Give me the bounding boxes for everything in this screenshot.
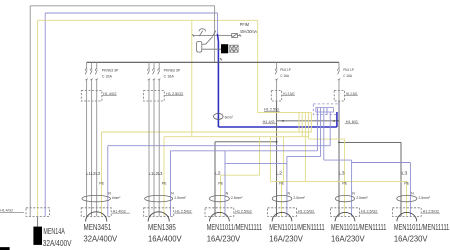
wire X1 stub to plug: [37, 216, 39, 227]
RCD trip coil diagonal: [232, 34, 238, 38]
underline Q3 cable label: [282, 95, 295, 97]
wire PE drop b: [301, 113, 303, 137]
wire PE drop socket X6: [406, 181, 408, 216]
wire N drop socket X2: [107, 146, 109, 217]
cable box Q3 dashed: [271, 91, 281, 102]
RCD test wire b: [202, 48, 222, 50]
svg-text:PFIM: PFIM: [240, 22, 249, 27]
socket X4 MEN11011: [268, 171, 325, 244]
svg-text:C 32A: C 32A: [102, 73, 112, 78]
svg-text:2.5mm²: 2.5mm²: [174, 195, 186, 200]
svg-text:L3: L3: [339, 171, 346, 176]
svg-text:6mm²: 6mm²: [112, 195, 121, 200]
wire PE supply top horizontal: [38, 19, 258, 21]
svg-text:L1L2L3: L1L2L3: [86, 171, 100, 176]
svg-text:16A/230V: 16A/230V: [394, 235, 428, 244]
wire N supply left vertical: [44, 13, 46, 208]
socket X5 MEN11011: [331, 171, 387, 244]
wire N drop socket X5: [351, 160, 353, 216]
RCD winding divider: [233, 45, 235, 52]
wire Q2 out 2 in box: [153, 91, 155, 102]
RCD N switch blade: [217, 34, 218, 55]
wire N main riser to junction: [336, 112, 338, 127]
breaker Q2 pole 2: [153, 62, 156, 90]
svg-text:N: N: [411, 191, 414, 195]
breaker Q4 pole: [338, 62, 341, 90]
svg-text:32A/400V: 32A/400V: [43, 239, 72, 248]
svg-text:2.5mm²: 2.5mm²: [293, 195, 305, 200]
wire PE row X5 upper: [309, 138, 345, 140]
wire N into RCD: [217, 13, 219, 34]
junction L2 T: [276, 141, 278, 143]
wire N drop socket X6: [409, 163, 411, 217]
svg-text:MEN11011/MEN11111: MEN11011/MEN11111: [207, 223, 263, 232]
wire X2 L1 down: [86, 101, 88, 216]
annotation dot left: [282, 120, 284, 122]
svg-text:PKN63 3P: PKN63 3P: [102, 67, 119, 72]
svg-text:MEN3451: MEN3451: [84, 223, 112, 232]
svg-text:N: N: [352, 191, 355, 195]
annotation dot right: [333, 120, 335, 122]
underline Q2 cable label: [164, 95, 183, 97]
RCD U1 body line: [193, 34, 232, 36]
underline X1 cable label: [0, 211, 24, 213]
RCD contact blade 1: [199, 31, 203, 37]
wire N drop socket X2b: [170, 151, 172, 217]
RCD contact blade 2: [212, 31, 216, 37]
RCD winding X1b: [230, 45, 234, 52]
RCD left terminal tick: [192, 34, 194, 36]
wire X1 L in box: [29, 208, 31, 217]
svg-text:2.5mm²: 2.5mm²: [419, 195, 431, 200]
svg-text:H1 2.5/G: H1 2.5/G: [264, 108, 279, 112]
svg-text:H1 6/G: H1 6/G: [346, 120, 358, 124]
svg-text:H1 4/G2: H1 4/G2: [0, 208, 13, 212]
wire L2 feeder Q3 down to socket X4: [276, 101, 278, 216]
wire L3 drop socket X6: [400, 142, 402, 216]
svg-text:H1 2.5/G: H1 2.5/G: [283, 92, 295, 96]
RCD test wire a: [202, 43, 206, 45]
bus L main horizontal: [87, 61, 339, 63]
wire L2 drop socket X3: [214, 142, 216, 217]
svg-text:MEN11011/MEN11111: MEN11011/MEN11111: [394, 223, 450, 232]
svg-text:MEN1385: MEN1385: [148, 223, 176, 232]
svg-text:32A/400V: 32A/400V: [84, 235, 118, 244]
svg-text:16A/400V: 16A/400V: [148, 235, 182, 244]
svg-text:L3: L3: [401, 171, 408, 176]
svg-text:N: N: [108, 191, 111, 195]
svg-text:C 16A: C 16A: [164, 73, 174, 78]
svg-text:H1 2.5/G2: H1 2.5/G2: [298, 209, 314, 213]
wire N main vertical: [217, 55, 219, 127]
wire N daisy row X5-X6: [352, 162, 411, 164]
cable box Q2 dashed: [144, 91, 165, 102]
wire PE feeder drop left: [191, 20, 193, 136]
cable box Q1 dashed: [81, 91, 102, 102]
underline H1 2.5/G mid: [264, 111, 280, 113]
wire Q2 out 1 in box: [148, 91, 150, 102]
breaker Q1 pole 1: [85, 62, 88, 90]
socket X2b MEN1385: [144, 171, 193, 243]
wire X2b L1 down: [148, 101, 150, 216]
svg-text:PN1 1P: PN1 1P: [343, 67, 354, 72]
junction box drop 4 stub: [326, 108, 328, 115]
svg-text:MEN11011/MEN11111: MEN11011/MEN11111: [269, 223, 325, 232]
wire L supply left vertical: [29, 6, 31, 208]
svg-text:PE: PE: [218, 181, 223, 186]
wire PE row sockets X4-X6: [270, 180, 406, 182]
cable box Q4 dashed: [334, 91, 344, 102]
wire PE feeder X3: [259, 137, 261, 176]
svg-text:C 16A: C 16A: [343, 73, 352, 78]
wire X1 PE in box: [37, 208, 39, 217]
junction box drop 3: [323, 108, 325, 160]
socket X2 MEN3451: [81, 171, 130, 243]
RCD winding X2a: [234, 45, 238, 52]
wire PE drop socket X3: [220, 175, 222, 216]
wire PE drop c: [308, 113, 310, 140]
title block corner mark: [0, 247, 9, 250]
svg-text:2.5mm²: 2.5mm²: [231, 195, 243, 200]
wire N row socket X4: [287, 155, 321, 157]
svg-text:H1 2.5/G: H1 2.5/G: [346, 92, 358, 96]
wire N row socket X5: [324, 159, 352, 161]
junction box drop 2: [320, 108, 322, 156]
wire PE row 1 (X2 tap): [102, 131, 312, 133]
wire N row B (X2b + X3 tap): [171, 150, 318, 152]
wire PE feeder drop right: [257, 20, 259, 112]
wire PE drop socket X2: [101, 132, 103, 216]
svg-text:H1 2.5/G2: H1 2.5/G2: [175, 209, 191, 213]
wire Q4 out in box: [338, 91, 340, 102]
RCD trip coil box: [232, 34, 238, 38]
cable marker ellipse on N main: [214, 113, 224, 119]
annotation link line: [277, 120, 339, 122]
wire N daisy row X3-X4: [225, 163, 287, 165]
RCD winding box: [230, 45, 238, 52]
breaker Q1 pole 2: [90, 62, 93, 90]
wire L into RCD: [214, 6, 216, 35]
wire PE drop socket X5: [344, 139, 346, 216]
wire Q1 out 3 in box: [96, 91, 98, 102]
RCD CT core (black): [221, 45, 227, 53]
breaker Q3 pole: [275, 62, 278, 90]
RCD winding X1a: [230, 45, 234, 52]
wire PE drop socket X4: [281, 181, 283, 216]
svg-text:N: N: [288, 191, 291, 195]
socket X3 MEN11011: [205, 171, 262, 244]
svg-text:H1 4/G: H1 4/G: [263, 120, 275, 124]
wire PE feeder X5-X6: [304, 113, 306, 182]
junction box drop 5 / N row A feed: [329, 112, 331, 146]
svg-text:40A/30mA: 40A/30mA: [240, 29, 257, 34]
wire X2 L3 down: [96, 101, 98, 216]
wire PE row top: [258, 112, 312, 114]
wire X2b L2 down: [153, 101, 155, 216]
junction box dashed outline: [313, 104, 339, 115]
wire X2b L3 down: [158, 101, 160, 216]
RCD right stub: [237, 34, 240, 36]
breaker Q2 pole 1: [148, 62, 151, 90]
svg-text:MEN14A: MEN14A: [43, 227, 65, 236]
svg-text:N: N: [220, 58, 223, 62]
svg-text:H1 2.5/G2: H1 2.5/G2: [423, 209, 439, 213]
wire X2 L2 down: [91, 101, 93, 216]
junction L3 T: [338, 142, 340, 144]
svg-text:16A/230V: 16A/230V: [331, 235, 365, 244]
svg-text:PE: PE: [99, 181, 104, 186]
RCD winding X2b: [234, 45, 238, 52]
svg-text:L2: L2: [215, 171, 222, 176]
svg-text:PE: PE: [279, 181, 284, 186]
svg-text:H1 2.5/G2: H1 2.5/G2: [361, 209, 377, 213]
wire Q1 out 2 in box: [91, 91, 93, 102]
cable box X1 (MEN14A) dashed: [26, 208, 49, 217]
svg-text:C 16A: C 16A: [280, 73, 289, 78]
wire N drop socket X4: [286, 156, 288, 216]
wire N main horizontal: [218, 126, 337, 128]
wire Q3 out in box: [276, 91, 278, 102]
RCD linkage arc: [199, 29, 206, 32]
wire PE drop socket X2b: [163, 137, 165, 217]
wire N supply top horizontal: [45, 12, 217, 14]
plug X1 MEN14A (black): [34, 227, 42, 245]
wire PE drop d: [310, 113, 312, 132]
wire PE feeder X4: [269, 137, 271, 182]
RCD right terminal tick: [239, 34, 241, 36]
svg-text:N: N: [226, 191, 229, 195]
svg-text:6mm²: 6mm²: [225, 114, 234, 119]
svg-text:2.5mm²: 2.5mm²: [356, 195, 368, 200]
underline H1 4/G mid: [263, 123, 277, 125]
socket X6 MEN11011: [392, 171, 449, 244]
underline Q4 cable label: [345, 95, 358, 97]
wire PE row socket X3: [221, 174, 260, 176]
svg-text:16A/230V: 16A/230V: [207, 235, 241, 244]
wire L supply top horizontal: [30, 5, 214, 7]
wire L3 branch horizontal to socket X6: [339, 141, 401, 143]
junction box drop 1: [316, 108, 318, 151]
svg-text:L2: L2: [276, 171, 283, 176]
junction box solid body: [316, 108, 334, 112]
breaker Q2 pole 3: [158, 62, 161, 90]
breaker Q1 pole 3: [95, 62, 98, 90]
RCD test button: [197, 42, 202, 53]
svg-text:16A/230V: 16A/230V: [269, 235, 303, 244]
wire PE row 2 (X2b tap): [164, 136, 309, 138]
wire N drop socket X3: [224, 151, 226, 217]
svg-text:H1 2.5/G2: H1 2.5/G2: [235, 209, 251, 213]
wire Q2 out 3 in box: [158, 91, 160, 102]
wire PE drop a: [298, 113, 300, 132]
svg-text:PE: PE: [162, 181, 167, 186]
RCD test wire diagonal: [206, 37, 213, 45]
svg-text:PE: PE: [342, 181, 347, 186]
svg-text:PKN63 3P: PKN63 3P: [164, 67, 181, 72]
wire N row A (X2 tap): [108, 145, 330, 147]
wire L RCD output to bus: [214, 35, 216, 62]
wire PE feeder X4 b: [282, 137, 284, 182]
svg-text:MEN11011/MEN11111: MEN11011/MEN11111: [331, 223, 387, 232]
svg-text:H1 4/G2: H1 4/G2: [113, 209, 126, 213]
underline Q1 cable label: [102, 95, 117, 97]
wire PE supply left vertical: [37, 20, 39, 208]
svg-text:PN1 1P: PN1 1P: [280, 67, 291, 72]
svg-text:H1 4/G2: H1 4/G2: [103, 92, 116, 96]
wire X1 N in box: [44, 208, 46, 217]
wire L2 branch horizontal to socket X3: [215, 141, 277, 143]
svg-text:H1 2.5/G2: H1 2.5/G2: [166, 92, 183, 96]
underline H1 6/G mid: [345, 123, 359, 125]
svg-text:PE: PE: [404, 181, 409, 186]
wire Q1 out 1 in box: [86, 91, 88, 102]
wire L3 feeder Q4 down to socket X5: [338, 101, 340, 216]
svg-text:L1L2L3: L1L2L3: [149, 171, 163, 176]
